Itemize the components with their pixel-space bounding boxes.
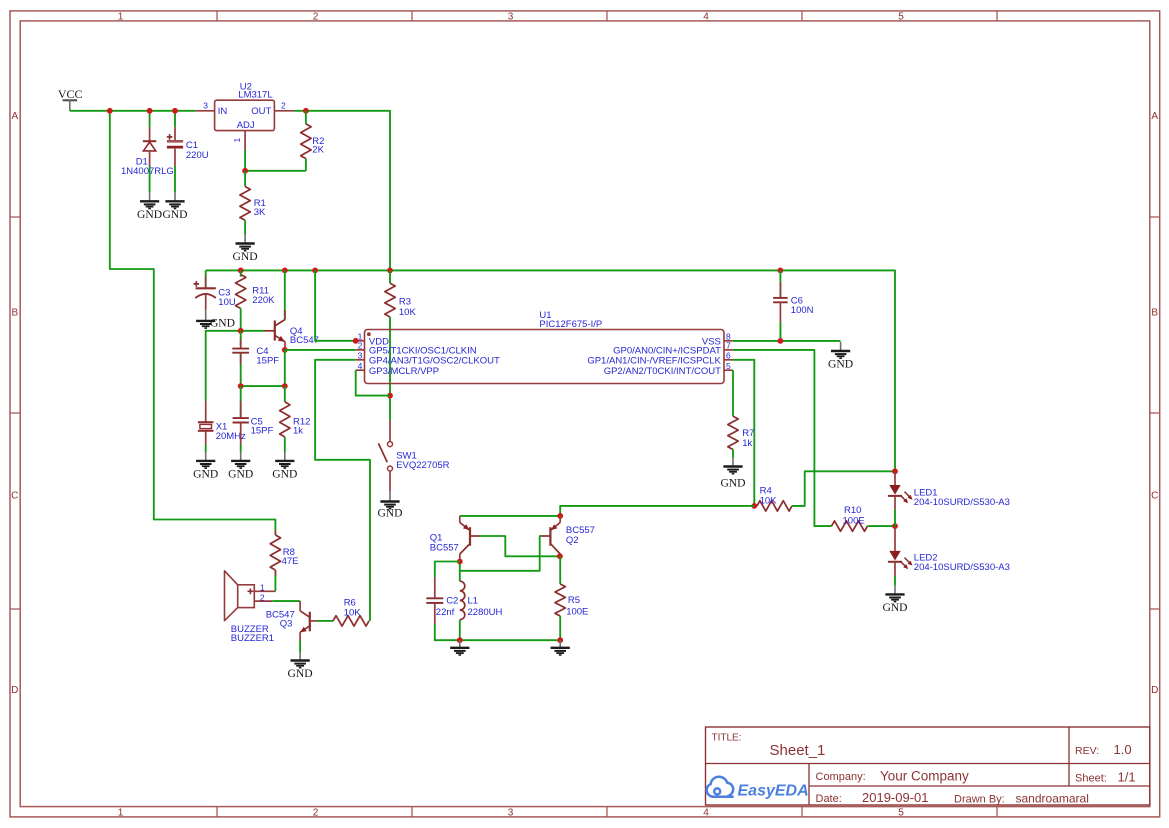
ground (X1) [193,452,218,481]
svg-text:2019-09-01: 2019-09-01 [862,790,929,805]
svg-text:2: 2 [313,11,319,22]
svg-text:1: 1 [118,807,124,818]
svg-text:R3: R3 [399,297,411,308]
svg-text:D: D [1151,685,1158,696]
junction [892,468,898,474]
junction [172,108,178,114]
microcontroller U1 PIC12F675-I/P [356,310,733,384]
wire D1 to GND [149,166,151,192]
wire LED1 cathode [894,509,896,526]
wire bottom rail [435,624,560,640]
transistor Q3 BC547 [266,601,317,640]
diode D1 1N4007RLG [121,127,174,177]
svg-text:10K: 10K [344,607,362,618]
svg-text:47E: 47E [282,556,299,567]
buzzer BUZZER1 [225,571,276,644]
junction [147,108,153,114]
wire Q2 base to tank node [460,536,541,571]
junction [107,108,113,114]
wire U2.OUT to bus [294,111,390,271]
svg-text:10K: 10K [399,307,417,318]
svg-text:Sheet_1: Sheet_1 [770,742,826,759]
junction [282,268,288,274]
transistor Q4 BC547 [265,320,319,347]
svg-text:GND: GND [210,317,235,330]
junction [282,383,288,389]
resistor R11 220K [236,270,276,330]
capacitor C2 22nf [426,578,458,625]
inductor L1 2280UH [460,581,503,640]
svg-text:4: 4 [703,807,709,818]
ground (LED2) [882,585,907,614]
ground (Q3) [288,653,313,681]
svg-text:100E: 100E [843,516,865,527]
svg-text:GND: GND [272,467,297,480]
ground (D1) [137,192,162,221]
wire Q4 collector red lead [284,310,286,319]
resistor R10 100E [832,505,896,531]
ground (C3) [196,310,235,329]
svg-text:B: B [11,307,18,318]
svg-text:2: 2 [281,101,286,111]
svg-text:2280UH: 2280UH [468,607,503,618]
svg-text:GP4/AN3/T1G/OSC2/CLKOUT: GP4/AN3/T1G/OSC2/CLKOUT [369,356,500,367]
junction [242,168,248,174]
svg-text:R10: R10 [844,505,861,516]
svg-text:A: A [11,111,18,122]
resistor R3 10K [385,270,417,318]
svg-text:EVQ22705R: EVQ22705R [396,460,449,471]
svg-text:D: D [11,685,18,696]
svg-text:2: 2 [313,807,319,818]
svg-text:Sheet:: Sheet: [1075,772,1107,784]
wire R2 to ADJ node [245,170,306,172]
svg-text:7: 7 [726,341,731,351]
wire R4 to LED1 anode [792,471,895,506]
svg-text:100E: 100E [566,607,588,618]
junction [457,559,463,565]
ground (R5) [551,640,570,655]
junction [457,637,463,643]
wire U1 pin6 to R4 node [733,360,755,506]
svg-text:OUT: OUT [251,106,271,117]
capacitor C6 100N [773,270,814,341]
junction [778,338,784,344]
junction [312,268,318,274]
wire Q4 emitter to R12 row [284,350,286,386]
svg-text:3: 3 [203,101,208,111]
junction [238,383,244,389]
title block [706,727,1150,805]
svg-text:C: C [11,491,18,502]
wire base row to X1 [206,331,265,401]
svg-text:15PF: 15PF [251,425,274,436]
wire Q3 emitter to GND [299,641,301,653]
wire X1 to GND [205,445,207,452]
svg-text:Date:: Date: [816,793,842,805]
transistor Q1 BC557 [430,516,480,562]
svg-text:R5: R5 [568,595,580,606]
wire bus to U1 pin1 VDD [315,270,356,340]
junction U1 pin1 [353,338,359,344]
wire U1 pin7 to R10 [733,350,832,526]
wire emitter rail to R4 node [460,506,755,516]
svg-text:1: 1 [118,11,124,22]
svg-text:GP2/AN2/T0CKI/INT/COUT: GP2/AN2/T0CKI/INT/COUT [604,366,721,377]
svg-text:3: 3 [508,11,514,22]
wire tank node to C2 [435,562,460,578]
svg-text:2K: 2K [312,144,324,155]
svg-text:VCC: VCC [58,87,83,101]
svg-text:Drawn By:: Drawn By: [954,793,1005,805]
svg-text:BUZZER1: BUZZER1 [231,633,274,644]
svg-text:1k: 1k [742,438,752,449]
resistor R6 10K [317,597,369,626]
svg-text:3: 3 [508,807,514,818]
ground (VSS) [828,342,853,371]
svg-text:1/1: 1/1 [1118,769,1136,784]
wire U1 pin3 to R6 [315,360,370,621]
ground (C1) [162,192,187,221]
svg-text:B: B [1151,307,1158,318]
svg-text:GND: GND [288,667,313,680]
net flag VCC [58,87,83,111]
switch SW1 EVQ22705R [378,421,449,492]
svg-text:BC557: BC557 [430,542,459,553]
wire Q1 collector to L1 [459,559,461,581]
capacitor C5 15PF [233,386,274,444]
svg-text:10U: 10U [218,297,236,308]
wire U2.ADJ to node [244,150,246,171]
svg-text:GND: GND [233,250,258,263]
ground (L1) [450,640,469,655]
wire R3 to SW1 [389,317,391,421]
svg-text:220K: 220K [252,295,275,306]
svg-text:GP1/AN1/CIN-/VREF/ICSPCLK: GP1/AN1/CIN-/VREF/ICSPCLK [587,356,721,367]
junction [557,513,563,519]
transistor Q2 BC557 [540,516,595,556]
svg-text:1: 1 [260,582,265,592]
junction [387,268,393,274]
svg-text:GND: GND [228,467,253,480]
svg-text:15PF: 15PF [256,355,279,366]
svg-text:GND: GND [377,507,402,520]
junction [751,503,757,509]
junction [282,347,288,353]
junction [387,393,393,399]
svg-text:5: 5 [898,11,904,22]
wire Q4 emitter lead [284,342,286,350]
wire regulated bus [206,270,895,471]
wire to D1 anode [149,111,151,127]
ground (C5) [228,452,253,481]
wire C5 to GND [240,445,242,452]
junction [557,553,563,559]
capacitor C3 10U [194,270,236,310]
svg-text:A: A [1151,111,1158,122]
svg-text:Your Company: Your Company [880,769,969,784]
wire Q1 base to Q2 collector [479,536,560,556]
svg-text:LM317L: LM317L [238,90,272,101]
svg-text:6: 6 [726,351,731,361]
svg-text:4: 4 [358,361,363,371]
wire U1 pin4 to R3/SW1 node [356,370,390,395]
svg-text:GND: GND [193,467,218,480]
svg-text:C: C [1151,491,1158,502]
wire Q4 collector [284,270,286,319]
junction [892,523,898,529]
svg-text:Company:: Company: [816,771,866,783]
svg-text:4: 4 [703,11,709,22]
svg-text:GND: GND [882,601,907,614]
svg-text:R7: R7 [742,428,754,439]
junction [238,328,244,334]
svg-text:Q2: Q2 [566,535,579,546]
svg-text:L1: L1 [468,596,479,607]
svg-text:2: 2 [358,341,363,351]
ground (R7) [720,458,745,490]
svg-text:1.0: 1.0 [1114,742,1132,757]
wire to C1 plus [174,111,176,127]
capacitor C1 220U [167,127,209,166]
ground (SW1) [377,491,402,519]
svg-text:GND: GND [162,208,187,221]
svg-text:100N: 100N [791,305,814,316]
svg-text:220U: 220U [186,150,209,161]
resistor R8 47E [270,530,298,591]
wire C1 to GND [174,166,176,192]
ground (R1) [233,235,258,264]
svg-text:204-10SURD/S530-A3: 204-10SURD/S530-A3 [914,497,1010,508]
resistor R1 3K [240,171,266,235]
capacitor C4 15PF [232,331,279,386]
resistor R5 100E [555,584,588,640]
crystal X1 20MHz [198,401,246,445]
wire C4/C5/R12 row [241,385,285,387]
wire VCC down to R8 [110,111,276,530]
LED2 204-10SURD/S530-A3 [888,526,1010,576]
svg-text:PIC12F675-I/P: PIC12F675-I/P [539,319,602,330]
resistor R4 10K [757,486,792,512]
svg-text:2: 2 [260,592,265,602]
svg-text:5: 5 [898,807,904,818]
wire C6 to VSS row [779,322,781,341]
LED1 204-10SURD/S530-A3 [888,471,1010,509]
svg-text:5: 5 [726,361,731,371]
svg-text:22nf: 22nf [436,607,455,618]
svg-text:REV:: REV: [1075,745,1099,757]
junction [778,268,784,274]
wire buzzer pin2 to Q3 collector [272,600,300,602]
svg-text:GND: GND [720,477,745,490]
svg-text:sandroamaral: sandroamaral [1016,791,1089,805]
wire Q4 emitter to U1 pin2 [285,349,356,351]
svg-text:GP3/MCLR/VPP: GP3/MCLR/VPP [369,366,439,377]
junction [557,637,563,643]
resistor R12 1k [280,386,311,452]
wire VCC to U2.IN [70,110,196,112]
svg-text:3K: 3K [254,207,266,218]
svg-text:Q3: Q3 [280,619,293,630]
svg-text:C2: C2 [446,596,458,607]
EasyEDA logo [707,777,809,800]
resistor R2 2K [301,111,325,171]
wire Q2 collector to R5 [559,556,561,584]
svg-text:3: 3 [358,351,363,361]
svg-text:GND: GND [137,208,162,221]
svg-text:204-10SURD/S530-A3: 204-10SURD/S530-A3 [914,562,1010,573]
svg-text:GND: GND [828,358,853,371]
svg-text:1: 1 [232,137,242,142]
svg-text:1N4007RLG: 1N4007RLG [121,166,174,177]
svg-text:1k: 1k [293,425,303,436]
svg-text:10K: 10K [760,495,778,506]
wire U1 pin8 VSS to GND [733,340,841,342]
regulator U2 LM317L [196,81,295,150]
junction [238,268,244,274]
wire LED2 to GND [894,576,896,585]
ground (R12) [272,452,297,481]
svg-text:EasyEDA: EasyEDA [738,783,809,800]
svg-text:IN: IN [218,106,228,117]
svg-text:ADJ: ADJ [237,120,255,131]
resistor R7 1k [728,370,755,457]
svg-text:TITLE:: TITLE: [712,733,742,744]
junction [303,108,309,114]
